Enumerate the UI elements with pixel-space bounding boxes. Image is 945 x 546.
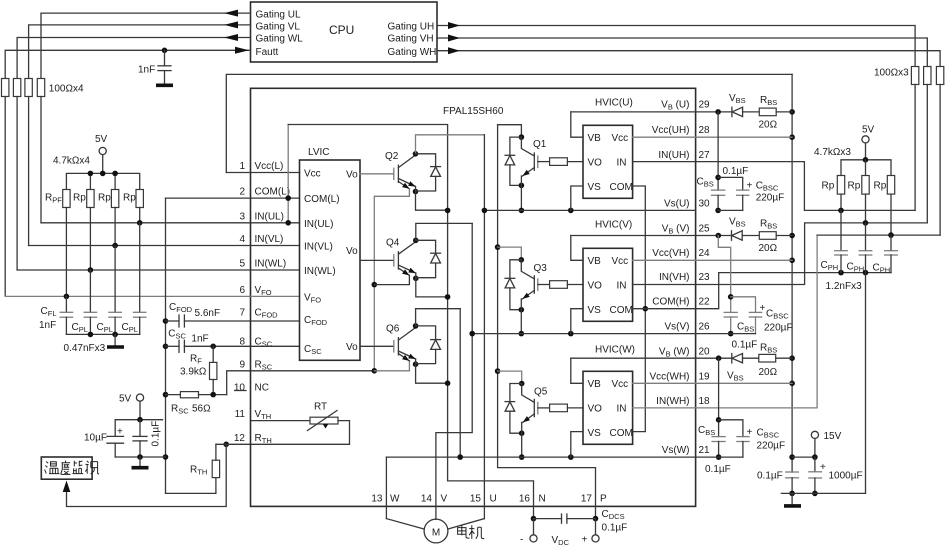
diode D4 freewheel xyxy=(416,240,436,253)
wire Rp1 lower xyxy=(89,208,91,271)
svg-text:Vcc(UH): Vcc(UH) xyxy=(652,125,690,136)
svg-text:COM: COM xyxy=(610,182,633,193)
svg-text:0.1µF: 0.1µF xyxy=(705,464,731,475)
svg-text:Vs(W): Vs(W) xyxy=(662,445,690,456)
wire U phase vertical xyxy=(483,135,485,519)
svg-text:1: 1 xyxy=(239,161,245,172)
wire HVIC(W) VS jog xyxy=(571,432,583,458)
svg-text:14: 14 xyxy=(421,494,433,505)
svg-text:Q1: Q1 xyxy=(533,139,547,150)
wire LVIC Vo2 to Q4 gate xyxy=(360,259,394,261)
wire pin3 IN(UL) into LVIC xyxy=(251,222,300,224)
wire CPH common line xyxy=(719,272,891,274)
svg-text:LVIC: LVIC xyxy=(308,147,330,158)
svg-text:+: + xyxy=(582,535,588,546)
svg-text:Vs(U): Vs(U) xyxy=(664,199,690,210)
svg-text:1nF: 1nF xyxy=(138,65,155,76)
diode D3 xyxy=(510,260,521,279)
wire pin29 VB(U) inside xyxy=(571,111,696,113)
wire W phase vertical xyxy=(459,309,461,457)
capacitor 0.1uF (5V rail) xyxy=(139,420,141,437)
wire pin7 CFOD into LVIC xyxy=(251,320,300,322)
wire pin22 COM(H) inside xyxy=(633,308,696,310)
svg-text:4.7kΩx4: 4.7kΩx4 xyxy=(53,156,90,167)
thermistor RT xyxy=(310,417,338,424)
wire RPF lower xyxy=(65,208,67,297)
svg-text:220µF: 220µF xyxy=(757,441,786,452)
wire 15V ground rail xyxy=(781,492,865,494)
svg-text:P: P xyxy=(600,494,607,505)
svg-text:Gating UL: Gating UL xyxy=(256,10,301,21)
capacitor CBS (W) xyxy=(718,358,720,436)
capacitor CPH (1) xyxy=(840,210,842,250)
capacitor CPL (3) xyxy=(139,223,141,312)
svg-text:0.1µF: 0.1µF xyxy=(723,166,749,177)
svg-text:5V: 5V xyxy=(862,125,875,136)
wire pin29 external xyxy=(696,111,732,113)
wire RT to pin12 loop xyxy=(251,421,350,445)
wire pin28 external xyxy=(696,136,793,138)
svg-text:VO: VO xyxy=(588,281,603,292)
wire pin25 external xyxy=(696,235,732,237)
svg-text:Gating WH: Gating WH xyxy=(388,47,437,58)
wire pin18 external to gating WH xyxy=(696,235,818,408)
svg-text:VB (V): VB (V) xyxy=(662,224,690,236)
svg-text:13: 13 xyxy=(371,494,383,505)
svg-text:Vcc(VH): Vcc(VH) xyxy=(652,248,689,259)
wire pin24 external xyxy=(696,259,793,261)
resistor Q5 gate xyxy=(538,407,550,409)
svg-text:0.1µF: 0.1µF xyxy=(151,421,162,447)
diode D2 freewheel xyxy=(416,154,436,167)
svg-text:Gating VH: Gating VH xyxy=(388,34,434,45)
svg-text:1.2nFx3: 1.2nFx3 xyxy=(826,281,863,292)
wire pin27 external to gating UH xyxy=(696,162,916,211)
capacitor CFOD 5.6nF (pin7) xyxy=(166,320,180,322)
resistor Rp (3) xyxy=(136,190,143,208)
glyph 监 xyxy=(72,461,83,474)
svg-text:Rp: Rp xyxy=(98,193,111,204)
wire pin9 RSC inside xyxy=(251,370,374,372)
svg-text:Rp: Rp xyxy=(822,181,835,192)
wire COM(H) down to 15V ground xyxy=(865,273,867,494)
capacitor CBSC (V) xyxy=(731,297,756,313)
diode VBS (V) xyxy=(731,231,733,240)
svg-text:VB: VB xyxy=(588,379,602,390)
svg-text:-: - xyxy=(520,535,523,546)
svg-text:100Ωx3: 100Ωx3 xyxy=(874,68,909,79)
ground (Fautt 1nF) xyxy=(156,84,173,88)
ground (CPL rail) xyxy=(107,345,124,349)
svg-text:Rp: Rp xyxy=(848,181,861,192)
arrow Gating VH xyxy=(448,35,460,42)
svg-text:Vcc(L): Vcc(L) xyxy=(255,161,284,172)
wire Q6 sense emitter xyxy=(398,354,409,361)
svg-text:VS: VS xyxy=(588,305,602,316)
resistor RBS (V) xyxy=(759,232,776,240)
wire pin18 IN(WH) inside xyxy=(633,407,696,409)
wire pin20 VB(W) inside xyxy=(571,357,696,359)
svg-text:IN(WL): IN(WL) xyxy=(255,259,287,270)
capacitor 1nF (Fautt filter) xyxy=(164,50,166,66)
svg-text:24: 24 xyxy=(699,248,711,259)
svg-text:25: 25 xyxy=(699,224,711,235)
svg-text:Gating WL: Gating WL xyxy=(256,34,304,45)
svg-text:Q5: Q5 xyxy=(534,387,548,398)
svg-text:VB: VB xyxy=(588,133,602,144)
wire pin4 IN(VL) line xyxy=(29,245,251,247)
svg-text:16: 16 xyxy=(519,494,531,505)
svg-text:19: 19 xyxy=(699,372,711,383)
svg-text:Vo: Vo xyxy=(346,246,358,257)
capacitor CPH (3) xyxy=(890,235,892,251)
module FPAL15SH60 outline xyxy=(251,88,696,506)
svg-text:+: + xyxy=(820,462,826,473)
svg-text:VB (U): VB (U) xyxy=(661,100,689,112)
wire Vs(V) line xyxy=(472,333,695,335)
svg-text:FPAL15SH60: FPAL15SH60 xyxy=(443,106,504,117)
svg-text:5.6nF: 5.6nF xyxy=(195,308,221,319)
svg-text:22: 22 xyxy=(699,296,711,307)
svg-text:Vo: Vo xyxy=(346,342,358,353)
svg-text:V: V xyxy=(441,494,448,505)
wire pin2 COM(L) line xyxy=(166,197,251,199)
svg-text:4: 4 xyxy=(239,234,245,245)
diode D1 (bootstrap-side freewheel) xyxy=(510,137,522,155)
diode VBS (U) xyxy=(731,107,733,116)
wire COM stub to IN(UL) xyxy=(287,125,289,223)
svg-text:18: 18 xyxy=(699,396,711,407)
svg-text:Q3: Q3 xyxy=(534,263,548,274)
resistor RPF xyxy=(63,190,70,208)
svg-text:26: 26 xyxy=(699,322,711,333)
svg-text:W: W xyxy=(390,494,400,505)
svg-text:+: + xyxy=(747,427,753,438)
IGBT Q5 body xyxy=(522,384,535,403)
wire Q4 sense emitter xyxy=(398,268,409,275)
wire pin1 Vcc(L) into LVIC xyxy=(226,172,299,174)
resistor Rp (right 2) xyxy=(862,176,869,195)
svg-text:IN(WH): IN(WH) xyxy=(656,396,689,407)
svg-text:N: N xyxy=(539,494,546,505)
wire Rp3 down to IN(WH) xyxy=(890,194,892,235)
wire pin19 Vcc(WH) inside xyxy=(633,382,696,384)
svg-text:Vcc: Vcc xyxy=(612,256,629,267)
svg-text:12: 12 xyxy=(234,433,246,444)
capacitor CPH (2) xyxy=(865,223,867,251)
IC LVIC box xyxy=(300,160,361,360)
wire HVIC(U) VS jog xyxy=(571,186,583,210)
wire HVIC(V) VS jog xyxy=(571,309,583,334)
arrow Gating VL xyxy=(224,21,238,28)
svg-text:27: 27 xyxy=(699,150,711,161)
svg-text:Vcc: Vcc xyxy=(612,133,629,144)
resistor RBS (U) xyxy=(759,108,776,116)
wire U phase motor lead xyxy=(448,519,484,529)
svg-text:28: 28 xyxy=(699,125,711,136)
svg-text:10µF: 10µF xyxy=(84,433,107,444)
wire Gating WL xyxy=(17,38,250,79)
wire Fautt column to pin6 xyxy=(4,97,6,297)
wire Q3 emitter to Vs(V) xyxy=(520,310,522,334)
capacitor CDCS (N-P link) xyxy=(531,516,537,522)
svg-text:VB (W): VB (W) xyxy=(659,346,690,358)
terminal VDC minus xyxy=(533,519,535,535)
resistor Rp (1) xyxy=(87,190,94,208)
diode VBS (W) xyxy=(731,354,733,363)
svg-text:VS: VS xyxy=(588,182,602,193)
wire pin23 IN(VH) inside xyxy=(633,284,696,286)
wire Q6 emitter to N bus xyxy=(416,359,448,383)
wire pin20 external xyxy=(696,357,732,359)
node pin12 / RTH / monitor junction xyxy=(223,442,229,448)
resistor 100Ohm x4 bank (left) xyxy=(2,79,9,97)
svg-text:20Ω: 20Ω xyxy=(759,367,778,378)
svg-text:0.1µF: 0.1µF xyxy=(732,340,758,351)
svg-text:COM: COM xyxy=(610,305,633,316)
ground (15V) xyxy=(784,504,801,508)
svg-text:COM: COM xyxy=(610,428,633,439)
svg-text:Fautt: Fautt xyxy=(256,47,279,58)
wire Vs(W) external stub xyxy=(696,456,743,458)
wire Q6 collector to W phase xyxy=(416,309,461,326)
svg-text:3: 3 xyxy=(239,211,245,222)
wire Rp3 lower xyxy=(139,208,141,223)
svg-text:HVIC(U): HVIC(U) xyxy=(595,98,633,109)
wire Q5 emitter to Vs(W) xyxy=(521,433,523,457)
svg-text:29: 29 xyxy=(699,100,711,111)
svg-text:IN: IN xyxy=(617,281,627,292)
wire right pull-up bus xyxy=(841,160,891,176)
node 15V supply xyxy=(811,431,818,438)
svg-text:+: + xyxy=(117,427,123,438)
arrow Gating UH xyxy=(448,22,460,29)
svg-text:M: M xyxy=(432,528,440,539)
svg-text:IN(UH): IN(UH) xyxy=(658,150,689,161)
capacitor CBS (U) 0.1uF xyxy=(717,112,719,190)
wire Gating VH column down xyxy=(926,85,928,223)
wire LVIC Vo3 to Q6 gate xyxy=(360,345,394,347)
wire pin19 external xyxy=(696,382,793,384)
wire Vcc 15V top distribution line xyxy=(226,74,792,172)
wire Gating UH xyxy=(437,26,915,67)
wire V phase vertical xyxy=(436,223,472,519)
diode D5 xyxy=(510,384,522,402)
svg-text:Gating UH: Gating UH xyxy=(388,21,435,32)
wire COM ground vertical xyxy=(165,198,167,493)
svg-text:IN(UL): IN(UL) xyxy=(255,211,284,222)
wire HVIC(V) VB jog xyxy=(571,236,583,261)
glyph 温 xyxy=(45,462,60,474)
resistor RBS (W) xyxy=(759,354,776,362)
wire internal COM top rail xyxy=(288,125,447,481)
svg-text:Vcc: Vcc xyxy=(612,379,629,390)
svg-text:1000µF: 1000µF xyxy=(829,471,863,482)
wire RSC jog up to pin9 xyxy=(227,371,251,395)
svg-text:COM(H): COM(H) xyxy=(652,296,689,307)
IGBT Q1 body xyxy=(521,137,534,156)
wire 5V decoupling node xyxy=(115,420,162,437)
svg-text:IN(VH): IN(VH) xyxy=(659,272,690,283)
svg-text:COM(L): COM(L) xyxy=(255,187,291,198)
wire Rp2 down to IN(VH) xyxy=(865,194,867,223)
wire pin11 VTH to RT xyxy=(251,420,311,422)
svg-text:17: 17 xyxy=(581,494,593,505)
arrow into monitor box xyxy=(63,481,71,493)
motor M xyxy=(424,519,448,543)
svg-text:9: 9 xyxy=(239,360,245,371)
wire pin22 external to CPH common xyxy=(696,273,719,309)
capacitor CBS (V) jog xyxy=(718,236,730,313)
wire Gating VL column to pin4 xyxy=(28,97,30,246)
wire pin5 IN(WL) line xyxy=(17,269,250,271)
wire pin6 VFO into LVIC xyxy=(251,295,300,297)
svg-text:1nF: 1nF xyxy=(39,320,56,331)
ground (5V caps) xyxy=(132,466,149,470)
svg-text:Gating VL: Gating VL xyxy=(256,21,301,32)
arrow Fautt xyxy=(235,47,249,54)
svg-text:IN: IN xyxy=(617,158,627,169)
arrow Gating WL xyxy=(224,34,238,41)
wire N bus to pin16 N xyxy=(448,481,534,519)
svg-text:7: 7 xyxy=(239,307,245,318)
wire pin9 gray extension to Q4/Q6 sense xyxy=(374,361,409,371)
glyph 电 xyxy=(458,525,470,538)
svg-text:VO: VO xyxy=(588,158,603,169)
CPU U-CPU box xyxy=(251,2,438,62)
wire P bus xyxy=(498,125,596,519)
wire temperature-monitor line xyxy=(67,444,227,506)
wire pin27 IN(UH) inside xyxy=(633,161,696,163)
wire Rp2 lower xyxy=(114,208,116,246)
wire pin8 CSC into LVIC xyxy=(251,345,300,347)
capacitor CBSC (U) 220uF xyxy=(718,177,743,190)
wire HVIC(W) VB jog xyxy=(571,358,583,383)
capacitor CSC 1nF (pin8) xyxy=(166,345,180,347)
wire pin4 IN(VL) into LVIC xyxy=(251,245,300,247)
svg-text:COM(L): COM(L) xyxy=(304,194,340,205)
svg-text:Q4: Q4 xyxy=(386,238,400,249)
wire Vs(U) line xyxy=(484,209,695,211)
wire Q4 emitter to N bus xyxy=(416,273,448,297)
svg-text:Rp: Rp xyxy=(123,193,136,204)
capacitor CBSC (W) xyxy=(719,420,743,437)
svg-text:VO: VO xyxy=(588,404,603,415)
wire HVIC COM chain xyxy=(633,186,646,432)
glyph 度 xyxy=(61,461,71,475)
wire pin6 VFO line xyxy=(5,295,250,297)
wire Vs(W) line xyxy=(386,456,695,458)
svg-text:20: 20 xyxy=(699,346,711,357)
svg-text:HVIC(W): HVIC(W) xyxy=(595,345,635,356)
wire Rp1 down to IN(UH) xyxy=(840,194,842,210)
resistor RF 3.9kOhm xyxy=(210,344,216,350)
wire Gating UH column down xyxy=(914,85,916,211)
svg-text:20Ω: 20Ω xyxy=(759,243,778,254)
resistor Rp (right 1) xyxy=(837,176,844,195)
IGBT Q3 body xyxy=(521,260,534,279)
box temperature monitor 温度监视 xyxy=(41,457,92,479)
svg-text:5V: 5V xyxy=(119,394,132,405)
wire 5V cap ground rail xyxy=(115,456,165,458)
capacitor CPL (2) xyxy=(114,246,116,313)
wire Fautt xyxy=(5,50,250,78)
arrow Gating WH xyxy=(448,47,460,54)
svg-text:Q2: Q2 xyxy=(385,151,399,162)
wire pin25 VB(V) inside xyxy=(571,235,696,237)
svg-text:8: 8 xyxy=(239,336,245,347)
svg-text:IN(WL): IN(WL) xyxy=(304,266,336,277)
svg-text:3.9kΩ: 3.9kΩ xyxy=(180,367,207,378)
svg-text:20Ω: 20Ω xyxy=(759,120,778,131)
svg-text:15V: 15V xyxy=(824,431,842,442)
resistor Q3 gate xyxy=(538,284,550,286)
svg-text:220µF: 220µF xyxy=(764,323,793,334)
capacitor 1000uF electrolytic xyxy=(814,457,816,472)
wire HVIC(U) VB jog xyxy=(571,112,583,137)
wire 5V pull-up bus xyxy=(66,173,139,189)
svg-text:15: 15 xyxy=(470,494,482,505)
svg-text:Vcc(WH): Vcc(WH) xyxy=(650,372,690,383)
svg-text:11: 11 xyxy=(235,409,246,420)
wire pin23 external to gating VH xyxy=(696,223,928,285)
glyph 机 xyxy=(469,525,484,539)
resistor Rp (2) xyxy=(111,190,118,208)
wire Q4 collector to V phase xyxy=(416,223,472,240)
wire pin12 RTH line xyxy=(216,443,251,445)
wire Q1 emitter to Vs(U) xyxy=(520,185,522,210)
svg-text:220µF: 220µF xyxy=(756,193,785,204)
svg-text:HVIC(V): HVIC(V) xyxy=(595,220,632,231)
svg-text:RT: RT xyxy=(314,402,327,413)
svg-text:0.1µF: 0.1µF xyxy=(602,523,628,534)
svg-text:NC: NC xyxy=(255,383,269,394)
svg-text:Vs(V): Vs(V) xyxy=(665,322,690,333)
wire pin3 IN(UL) line xyxy=(41,222,251,224)
capacitor 10uF electrolytic xyxy=(107,435,124,437)
svg-text:4.7kΩx3: 4.7kΩx3 xyxy=(814,147,851,158)
wire pin26 Vs(V) external xyxy=(696,333,756,335)
svg-text:Vo: Vo xyxy=(346,169,358,180)
wire pin2 COM(L) into LVIC xyxy=(251,197,300,199)
svg-text:0.1µF: 0.1µF xyxy=(757,471,783,482)
svg-text:+: + xyxy=(747,181,753,192)
resistor RSC 56Ohm xyxy=(180,392,198,398)
wire Q2 sense emitter xyxy=(398,182,409,189)
glyph 视 xyxy=(85,461,99,474)
wire pin5 IN(WL) into LVIC xyxy=(251,269,300,271)
resistor 100Ohm x3 bank (right) xyxy=(911,67,918,85)
wire Q2 collector to U phase xyxy=(416,135,485,154)
wire CPL ground rail xyxy=(66,333,139,335)
wire Gating VL xyxy=(29,25,251,79)
svg-text:21: 21 xyxy=(699,445,711,456)
svg-text:10: 10 xyxy=(234,383,246,394)
svg-text:56Ω: 56Ω xyxy=(192,404,211,415)
wire Gating VH xyxy=(437,38,927,67)
svg-text:+: + xyxy=(760,303,766,314)
svg-text:23: 23 xyxy=(699,272,711,283)
wire Gating WH column down xyxy=(939,85,941,236)
wire V phase motor lead xyxy=(435,518,437,520)
wire Gating WL column to pin5 xyxy=(16,97,18,271)
resistor Q1 gate xyxy=(538,161,550,163)
svg-text:VS: VS xyxy=(588,428,602,439)
node Fautt / C 1nF junction xyxy=(162,48,168,54)
svg-text:CPU: CPU xyxy=(329,23,354,37)
svg-text:6: 6 xyxy=(239,285,245,296)
svg-text:IN(VL): IN(VL) xyxy=(304,242,333,253)
